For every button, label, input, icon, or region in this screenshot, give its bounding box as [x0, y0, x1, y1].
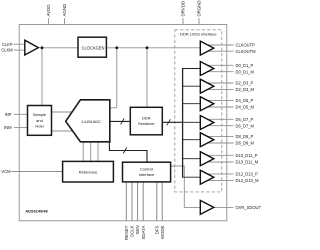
- svg-text:DFS: DFS: [154, 225, 159, 234]
- svg-text:Reference: Reference: [79, 169, 98, 174]
- bus stub D6_D7 buffer: [182, 121, 200, 123]
- wire D12_D13_P: [203, 173, 234, 175]
- wire Sample and Hold to ADC plus: [52, 111, 75, 113]
- wire D8_D9_P: [203, 135, 234, 137]
- wire OVR_SDOUT: [214, 206, 234, 208]
- LVDS output buffer D0_D1: [200, 62, 214, 76]
- wire clock to Sample and Hold: [41, 48, 43, 106]
- svg-text:D12_D13_M: D12_D13_M: [236, 178, 260, 183]
- LVDS output buffer D10_D11: [200, 152, 214, 166]
- wire ADC to DDR Serializer bus: [110, 120, 130, 122]
- bus stub D2_D3 buffer: [182, 85, 200, 87]
- svg-text:D4_D5_P: D4_D5_P: [236, 98, 254, 103]
- svg-text:CLKOUTP: CLKOUTP: [236, 43, 256, 48]
- DDR Serializer box: [130, 107, 162, 135]
- bus slash ADC to control interface: [123, 148, 127, 154]
- bus stub D12_D13 buffer: [182, 176, 200, 178]
- svg-text:CLKOUTM: CLKOUTM: [236, 49, 257, 54]
- wire DDR Serializer output bus: [162, 121, 183, 123]
- chip boundary ADS6149/48: [19, 25, 227, 221]
- svg-text:D4_D5_M: D4_D5_M: [236, 105, 255, 110]
- svg-text:Serializer: Serializer: [138, 121, 155, 126]
- DDR LVDS Interface dashed box: [175, 30, 222, 192]
- svg-text:RESET: RESET: [124, 225, 129, 240]
- svg-text:DRVDD: DRVDD: [181, 1, 186, 17]
- svg-text:Sample: Sample: [33, 112, 47, 117]
- node clock buffer output junction: [41, 46, 44, 49]
- pin MODE wire: [161, 182, 163, 221]
- bus stub D4_D5 buffer: [182, 103, 200, 105]
- svg-text:D6_D7_M: D6_D7_M: [236, 123, 255, 128]
- svg-text:CLKM: CLKM: [1, 48, 13, 53]
- LVDS output buffer D2_D3: [200, 79, 214, 93]
- wire Control Interface to OVR buffer: [171, 166, 201, 207]
- wire clock branch to DDR Serializer: [146, 48, 148, 108]
- svg-text:OVR_SDOUT: OVR_SDOUT: [236, 205, 262, 210]
- wire clock branch to ADC: [110, 48, 117, 108]
- LVDS output buffer D4_D5: [200, 97, 214, 111]
- svg-text:VCM: VCM: [1, 169, 11, 174]
- wire ADC to Reference 2: [90, 142, 92, 162]
- wire D0_D1_P: [203, 64, 234, 66]
- CLOCKGEN box: [78, 37, 106, 57]
- svg-text:INM: INM: [4, 125, 12, 130]
- pin INM wire: [14, 127, 28, 129]
- bus stub D0_D1 buffer: [182, 68, 200, 70]
- pin CLKP wire: [14, 43, 25, 45]
- svg-text:CLOCKGEN: CLOCKGEN: [82, 45, 105, 50]
- svg-text:D0_D1_M: D0_D1_M: [236, 69, 255, 74]
- wire D12_D13_M: [203, 179, 234, 181]
- OVR_SDOUT output buffer: [200, 200, 214, 214]
- LVDS output buffer D12_D13: [200, 170, 214, 184]
- LVDS output buffer D8_D9: [200, 133, 214, 147]
- 14-Bit ADC: [66, 100, 110, 142]
- svg-text:DDR: DDR: [142, 115, 151, 120]
- pin DRGND wire: [198, 18, 200, 25]
- wire D2_D3_M: [203, 88, 234, 90]
- wire ADC to Reference 1: [82, 142, 84, 162]
- Sample and Hold box: [28, 106, 52, 136]
- wire D6_D7_M: [203, 125, 234, 127]
- pin AGND wire: [64, 18, 66, 25]
- wire D4_D5_P: [203, 99, 234, 101]
- svg-text:D8_D9_P: D8_D9_P: [236, 134, 254, 139]
- wire ADC to Control Interface: [109, 141, 147, 162]
- pin DFS wire: [156, 182, 158, 221]
- svg-text:D10_D11_P: D10_D11_P: [236, 153, 258, 158]
- node clock to serializer junction: [146, 46, 149, 49]
- wire D0_D1_M: [203, 71, 234, 73]
- pin DRVDD wire: [182, 18, 184, 25]
- svg-text:SCLK: SCLK: [130, 225, 135, 237]
- bus stub D10_D11 buffer: [182, 158, 200, 160]
- wire D10_D11_P: [203, 154, 234, 156]
- svg-text:D0_D1_P: D0_D1_P: [236, 63, 254, 68]
- svg-text:Control: Control: [140, 166, 153, 171]
- pin RESET wire: [125, 182, 127, 221]
- svg-text:and: and: [36, 118, 43, 123]
- svg-text:14-Bit ADC: 14-Bit ADC: [81, 119, 101, 124]
- svg-text:AGND: AGND: [62, 4, 67, 17]
- pin SCLK wire: [131, 182, 133, 221]
- wire CLKOUTM: [203, 50, 234, 52]
- svg-text:D2_D3_M: D2_D3_M: [236, 87, 255, 92]
- pin VCM wire: [12, 171, 63, 173]
- svg-text:ADS6149/48: ADS6149/48: [25, 209, 48, 214]
- svg-text:Hold: Hold: [35, 124, 43, 129]
- wire D6_D7_P: [203, 118, 234, 120]
- svg-text:SDATA: SDATA: [141, 225, 146, 239]
- node clock to ADC junction: [115, 46, 118, 49]
- svg-text:D6_D7_P: D6_D7_P: [236, 117, 254, 122]
- pin AVDD wire: [47, 18, 49, 25]
- svg-text:AVDD: AVDD: [46, 5, 51, 17]
- bus slash ADC to serializer: [121, 118, 125, 124]
- svg-text:MODE: MODE: [160, 225, 165, 238]
- svg-text:INP: INP: [5, 112, 12, 117]
- Reference box: [63, 161, 114, 182]
- wire clock buffer output to CLOCKGEN and CLKOUT buffer: [39, 47, 200, 49]
- wire D10_D11_M: [203, 161, 234, 163]
- pin CLKM wire: [14, 49, 25, 51]
- svg-text:Interface: Interface: [139, 172, 155, 177]
- pin SEN wire: [137, 182, 139, 221]
- wire D4_D5_M: [203, 106, 234, 108]
- wire ADC to Reference 3: [97, 142, 99, 162]
- bus slash serializer output: [167, 119, 171, 125]
- bus stub D8_D9 buffer: [182, 139, 200, 141]
- svg-text:DRGND: DRGND: [197, 0, 202, 16]
- svg-text:D2_D3_P: D2_D3_P: [236, 81, 254, 86]
- LVDS distribution bus vertical: [182, 69, 184, 178]
- clock input buffer: [25, 40, 39, 55]
- svg-text:D12_D13_P: D12_D13_P: [236, 172, 259, 177]
- wire Sample and Hold to ADC minus: [52, 130, 75, 132]
- wire D2_D3_P: [203, 82, 234, 84]
- pin SDATA wire: [142, 182, 144, 221]
- svg-text:D8_D9_M: D8_D9_M: [236, 141, 255, 146]
- svg-text:SEN: SEN: [135, 226, 140, 235]
- wire CLKOUTP: [203, 44, 234, 46]
- svg-text:D10_D11_M: D10_D11_M: [236, 160, 259, 165]
- Control Interface box: [123, 162, 171, 182]
- LVDS output buffer D6_D7: [200, 116, 214, 130]
- pin INP wire: [14, 113, 28, 115]
- LVDS output buffer CLKOUT: [200, 41, 214, 55]
- svg-text:CLKP: CLKP: [2, 42, 13, 47]
- svg-text:DDR LVDS Interface: DDR LVDS Interface: [180, 32, 217, 37]
- wire D8_D9_M: [203, 142, 234, 144]
